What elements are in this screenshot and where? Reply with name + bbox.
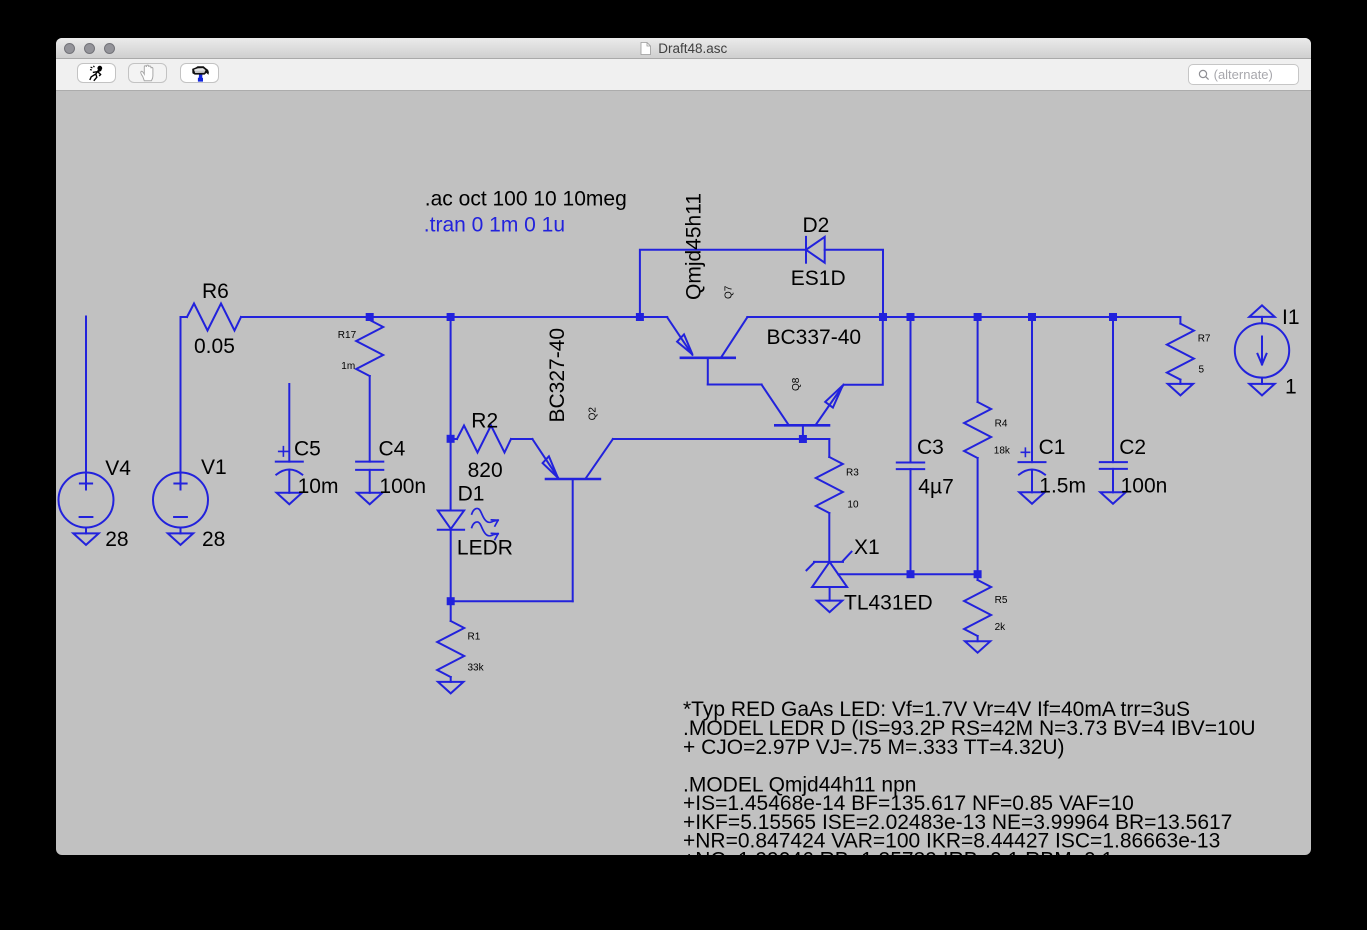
capacitor C1 plus sign	[1021, 448, 1029, 456]
junction node at 883,317	[879, 313, 887, 321]
ground at C5	[277, 493, 302, 505]
svg-text:R17: R17	[338, 330, 357, 341]
capacitor C5 plus sign	[279, 447, 288, 456]
junction node at 450.6,317	[447, 313, 455, 321]
wire rail input	[241, 316, 667, 318]
junction node at 977.6,574.2	[974, 570, 982, 578]
voltage source V1 body	[153, 473, 208, 528]
junction node at 910.5,574.2	[907, 570, 915, 578]
capacitor C5 bottom plate (polarized arc)	[276, 470, 302, 475]
wire C5 to ground	[288, 470, 290, 493]
svg-text:R7: R7	[1198, 334, 1211, 345]
wire R5 to ground	[977, 636, 979, 641]
capacitor C1 bottom plate (polarized arc)	[1019, 470, 1045, 475]
schematic canvas	[56, 91, 1311, 855]
svg-text:BC327-40: BC327-40	[546, 328, 569, 423]
transistor Q8 emitter	[816, 385, 844, 425]
toolbar	[56, 59, 1311, 91]
svg-text:.ac oct 100 10 10meg: .ac oct 100 10 10meg	[425, 188, 627, 211]
svg-text:+NC=1.99046 RB=1.35739 IRB=0.1: +NC=1.99046 RB=1.35739 IRB=0.1 RBM=0.1	[683, 848, 1113, 855]
shunt regulator X1 cathode bar	[814, 561, 843, 563]
ground at I1 bottom	[1249, 384, 1274, 396]
svg-text:28: 28	[202, 528, 225, 551]
junction node at 1113,317	[1109, 313, 1117, 321]
ground at R1	[438, 682, 463, 694]
wire R1 to ground	[450, 677, 452, 682]
svg-text:1m: 1m	[341, 361, 355, 372]
wire R17 to C4	[369, 376, 371, 462]
transistor Q7 emitter arrow	[677, 334, 692, 354]
LED D1 light arrow 2	[472, 522, 498, 540]
wire Q8 base node to R3	[803, 438, 829, 440]
wire R4 to node	[977, 458, 979, 580]
svg-text:Qmjd45h11: Qmjd45h11	[682, 193, 705, 300]
wire rail to R7	[1179, 317, 1181, 324]
svg-text:C3: C3	[917, 436, 944, 459]
ground at V4	[73, 533, 98, 545]
svg-text:R2: R2	[471, 410, 498, 433]
ground at I1 top (inverted)	[1249, 305, 1274, 317]
transistor Q2 emitter arrow	[543, 456, 558, 478]
resistor R2	[451, 426, 511, 453]
capacitor C3 bottom plate	[897, 468, 924, 470]
diode D2 triangle	[806, 237, 825, 263]
wire Q2 collector to Q8 base node	[613, 439, 829, 457]
svg-text:4µ7: 4µ7	[918, 476, 953, 499]
wire C4 to ground	[369, 470, 371, 493]
junction node at 1032,317	[1028, 313, 1036, 321]
svg-text:C4: C4	[379, 438, 406, 461]
capacitor C2 bottom plate	[1100, 468, 1127, 470]
transistor Q7 base bar	[681, 356, 735, 359]
svg-text:C5: C5	[294, 438, 321, 461]
wire output rail	[747, 316, 1180, 318]
svg-text:820: 820	[468, 459, 503, 482]
transistor Q7 collector	[721, 317, 747, 357]
wire Q8 emitter to rail	[844, 317, 883, 385]
transistor Q8 base lead	[802, 425, 804, 439]
svg-text:Q7: Q7	[724, 285, 735, 299]
junction node at 802.9,439	[799, 435, 807, 443]
svg-text:ES1D: ES1D	[791, 267, 846, 290]
svg-text:R1: R1	[468, 632, 481, 643]
wire V4 to ground	[85, 528, 87, 534]
svg-text:1.5m: 1.5m	[1039, 474, 1086, 497]
svg-text:TL431ED: TL431ED	[844, 592, 933, 615]
X1 cathode tick left	[807, 562, 815, 570]
capacitor C3 top plate	[897, 462, 924, 464]
wire C3 to bottom node	[910, 469, 912, 574]
svg-text:D2: D2	[803, 214, 830, 237]
junction node at 450.7,601.2	[447, 597, 455, 605]
voltage source V1 minus sign	[174, 516, 187, 518]
svg-text:C2: C2	[1119, 436, 1146, 459]
ground at R5	[965, 641, 990, 653]
capacitor C1 top plate	[1019, 461, 1046, 463]
svg-text:R5: R5	[995, 595, 1008, 606]
voltage source V4 minus sign	[80, 516, 93, 518]
voltage source V4 wire	[85, 317, 87, 490]
transistor Q7 emitter	[667, 317, 692, 355]
svg-text:V4: V4	[105, 457, 131, 480]
wire Q7 base to Q8 collector	[708, 384, 762, 386]
capacitor C4 bottom plate	[356, 469, 383, 471]
wire rail to R4	[977, 317, 979, 402]
wire I1 bottom	[1261, 378, 1263, 384]
svg-text:100n: 100n	[1121, 474, 1168, 497]
LED D1 light arrow 1	[472, 508, 498, 526]
component (hammer) button	[180, 63, 219, 83]
transistor Q8 base bar	[775, 424, 829, 427]
svg-text:18k: 18k	[994, 446, 1011, 457]
run button	[77, 63, 116, 83]
svg-text:R6: R6	[202, 280, 229, 303]
wire rail to C1	[1031, 317, 1033, 462]
junction node at 910.5,317	[907, 313, 915, 321]
wire rail to C3	[910, 317, 912, 463]
current source I1 arrow	[1261, 337, 1263, 365]
svg-text:R3: R3	[846, 467, 859, 478]
svg-text:BC337-40: BC337-40	[767, 326, 862, 349]
diode D2 cathode bar	[805, 237, 807, 263]
transistor Q2 base lead	[572, 479, 574, 601]
wire V1 to ground	[180, 528, 182, 534]
pan (hand) button	[128, 63, 167, 83]
LED D1 triangle	[438, 511, 464, 529]
svg-text:+ CJO=2.97P VJ=.75 M=.333 TT=4: + CJO=2.97P VJ=.75 M=.333 TT=4.32U)	[683, 736, 1065, 759]
svg-text:2k: 2k	[995, 622, 1007, 633]
ground at R7	[1168, 384, 1193, 396]
junction node at 977.6,317	[974, 313, 982, 321]
svg-text:Q8: Q8	[791, 377, 802, 391]
svg-text:33k: 33k	[468, 663, 485, 674]
wire R7 to ground	[1179, 380, 1181, 384]
voltage source V1 plus sign	[174, 483, 186, 485]
X1 reference tick	[843, 552, 852, 562]
wire D2 to rail right	[825, 250, 883, 317]
svg-text:0.05: 0.05	[194, 335, 235, 358]
window title bar	[56, 38, 1311, 59]
wire X1 ref to R4/R5 node	[838, 573, 977, 575]
transistor Q7 base lead	[707, 358, 709, 385]
svg-text:Q2: Q2	[588, 407, 599, 421]
junction node at 369.7,317	[366, 313, 374, 321]
wire X1 to ground	[829, 587, 831, 601]
ground at C2	[1100, 492, 1125, 504]
wire I1 top	[1261, 317, 1263, 323]
svg-text:100n: 100n	[379, 475, 426, 498]
resistor R7	[1167, 324, 1194, 380]
capacitor C2 top plate	[1100, 461, 1127, 463]
wire rail up to D2	[640, 250, 806, 317]
current source I1 arrowhead	[1258, 354, 1267, 365]
ground at V1	[168, 533, 193, 545]
wire D1 node to Q2 base	[451, 600, 573, 602]
ground at C1	[1019, 492, 1044, 504]
svg-text:.tran 0 1m 0 1u: .tran 0 1m 0 1u	[424, 213, 565, 236]
LED D1 cathode bar	[438, 529, 464, 531]
wire C1 to ground	[1031, 470, 1033, 492]
svg-text:R4: R4	[995, 419, 1008, 430]
capacitor C4 top plate	[356, 461, 383, 463]
current source I1 body	[1235, 323, 1289, 377]
resistor R6	[181, 304, 242, 331]
voltage source V4 plus sign	[80, 483, 92, 485]
wire D1 to R1 node	[450, 530, 452, 621]
resistor R4	[964, 402, 991, 458]
wire R2 to Q2	[511, 438, 532, 440]
wire C5 top (dangling)	[288, 384, 290, 462]
ground at C4	[357, 493, 382, 505]
junction node at 639.9,317	[636, 313, 644, 321]
wire C2 to ground	[1112, 469, 1114, 492]
voltage source V4 body	[59, 473, 114, 528]
ground at X1	[817, 601, 842, 613]
wire rail to C2	[1112, 317, 1114, 462]
svg-text:28: 28	[105, 528, 128, 551]
svg-text:I1: I1	[1282, 306, 1300, 329]
resistor R1	[437, 621, 464, 677]
capacitor C5 top plate	[276, 461, 303, 463]
svg-text:C1: C1	[1039, 436, 1066, 459]
svg-text:5: 5	[1199, 365, 1205, 376]
svg-text:X1: X1	[854, 536, 880, 559]
resistor R3	[816, 457, 843, 513]
junction node at 450.6,438.8	[447, 435, 455, 443]
transistor Q2 emitter	[532, 439, 558, 478]
svg-text:10m: 10m	[298, 475, 339, 498]
svg-text:1: 1	[1285, 376, 1297, 399]
transistor Q2 collector	[586, 439, 613, 478]
svg-text:V1: V1	[201, 456, 227, 479]
transistor Q8 emitter arrow	[825, 385, 843, 407]
shunt regulator X1 triangle	[812, 562, 847, 587]
voltage source V1 wire	[180, 317, 182, 490]
wire R3 to X1	[828, 513, 830, 562]
wire rail to D1	[450, 317, 452, 511]
resistor R5	[964, 580, 991, 636]
svg-text:D1: D1	[458, 482, 485, 505]
svg-text:LEDR: LEDR	[457, 537, 513, 560]
search field	[1188, 64, 1299, 85]
transistor Q2 base bar	[546, 478, 600, 481]
resistor R17	[356, 317, 383, 376]
transistor Q8 collector	[762, 385, 789, 425]
svg-text:10: 10	[847, 500, 859, 511]
